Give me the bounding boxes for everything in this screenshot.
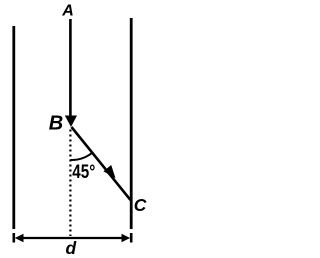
left dimension tick <box>13 233 16 243</box>
dimension line for d <box>20 237 125 239</box>
svg-text:B: B <box>49 113 63 135</box>
right dimension arrowhead <box>122 234 131 242</box>
right dimension tick <box>130 233 133 243</box>
left barrier <box>12 26 15 229</box>
incident ray A to B <box>69 19 72 118</box>
refracted ray B to C <box>72 127 131 200</box>
svg-text:A: A <box>61 3 74 20</box>
dotted normal line below B <box>69 130 71 237</box>
svg-text:45°: 45° <box>72 161 95 183</box>
angle arc at B <box>70 153 92 161</box>
arrowhead at B <box>65 116 77 128</box>
svg-text:C: C <box>134 195 147 215</box>
left dimension arrowhead <box>15 234 24 242</box>
arrowhead on ray BC <box>103 165 115 178</box>
svg-text:d: d <box>66 238 77 258</box>
right barrier <box>130 18 133 229</box>
